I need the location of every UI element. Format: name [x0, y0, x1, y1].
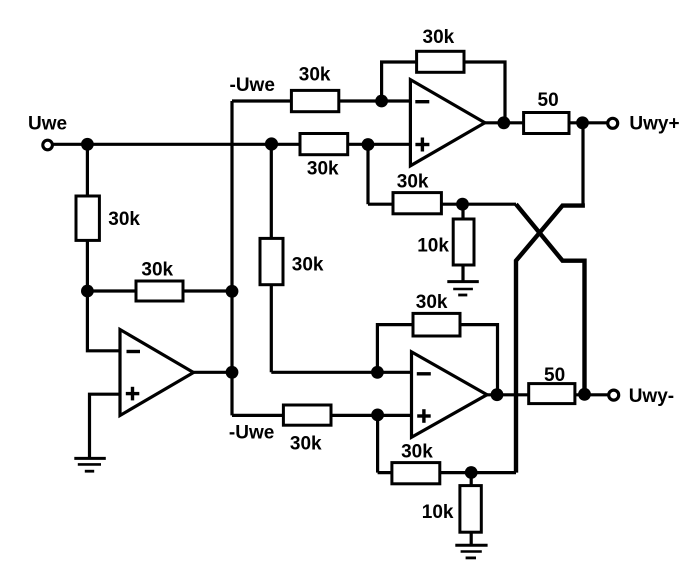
node input Uwe junction: [81, 138, 94, 151]
resistor 30k bottom op-amp feedback: [413, 313, 460, 336]
op-amp U2 plus sign: [415, 143, 429, 146]
wire top feedback right: [464, 62, 505, 123]
resistor 30k middle vertical: [260, 238, 283, 284]
resistor 30k bottom positive net: [392, 463, 440, 484]
svg-text:-Uwe: -Uwe: [230, 75, 275, 96]
terminal Uwy- output: [609, 390, 619, 400]
svg-text:50: 50: [538, 90, 559, 111]
wire bottom op-amp minus row: [271, 371, 411, 374]
node left feedback junction: [226, 285, 239, 298]
wire bottom output row: [487, 393, 610, 396]
node Uwy- output junction: [578, 388, 591, 401]
wire left attenuator vertical: [86, 144, 89, 291]
node bottom minus input junction: [371, 366, 384, 379]
wire crossover from Uwy+ to bottom plus-net: [516, 206, 585, 473]
svg-text:30k: 30k: [397, 172, 429, 193]
terminal Uwy+ output: [608, 118, 618, 128]
wire top plus-net vertical: [366, 144, 369, 204]
op-amp U3 minus sign: [417, 372, 431, 375]
node middle resistor junction: [265, 137, 278, 150]
wire Uwy+ node down feed: [581, 123, 584, 204]
ground top 10k: [447, 280, 479, 283]
svg-text:10k: 10k: [422, 502, 454, 523]
resistor 30k top positive net: [393, 193, 441, 214]
node top plus input junction: [362, 138, 375, 151]
node top 10k junction: [456, 198, 469, 211]
resistor 30k top -Uwe input: [291, 90, 338, 111]
svg-text:Uwe: Uwe: [28, 114, 67, 135]
wire left op-amp plus input to ground: [90, 394, 122, 459]
wire top plus-net row: [368, 203, 516, 206]
wire bottom 10k vertical: [470, 473, 473, 545]
node bottom plus input junction: [371, 409, 384, 422]
svg-text:Uwy-: Uwy-: [629, 386, 674, 407]
resistor 30k left op-amp feedback: [136, 281, 183, 301]
node left op-amp output junction: [226, 366, 239, 379]
wire bottom -Uwe row: [232, 414, 412, 417]
resistor 30k top plus input: [300, 134, 348, 155]
svg-text:30k: 30k: [108, 209, 140, 230]
wire top feedback left: [382, 62, 417, 101]
op-amp U2 top: [410, 80, 485, 166]
svg-text:30k: 30k: [292, 254, 324, 275]
resistor 50 bottom output: [529, 384, 575, 404]
terminal Uwe input: [43, 140, 53, 150]
resistor 50 top output: [524, 113, 569, 134]
resistor 10k top: [453, 219, 474, 265]
op-amp U1 minus sign: [127, 350, 141, 353]
wire bottom plus-net vertical: [376, 415, 379, 472]
wire input row Uwe: [48, 143, 409, 146]
svg-text:30k: 30k: [290, 434, 322, 455]
op-amp U2 minus sign: [415, 100, 429, 103]
ground left op-amp: [74, 457, 106, 460]
wire middle resistor vertical: [270, 144, 273, 372]
wire left feedback row: [87, 289, 232, 292]
wire bottom plus-net row: [378, 471, 516, 474]
resistor 30k bottom -Uwe input: [283, 405, 331, 425]
resistor 30k input attenuator top: [76, 196, 99, 240]
svg-text:10k: 10k: [417, 235, 449, 256]
node Uwy+ output junction: [576, 116, 589, 129]
op-amp U1 plus sign: [126, 392, 140, 395]
node left attenuator junction: [81, 285, 94, 298]
resistor 10k bottom: [460, 486, 481, 533]
node bottom 10k junction: [465, 466, 478, 479]
node bottom op-amp output junction: [491, 388, 504, 401]
svg-text:30k: 30k: [307, 159, 339, 180]
node top minus input junction: [375, 95, 388, 108]
svg-text:-Uwe: -Uwe: [229, 423, 274, 444]
wire crossover from top plus-net to Uwy-: [516, 204, 585, 395]
wire bottom feedback right: [460, 325, 498, 395]
wire left op-amp minus input: [87, 291, 121, 351]
svg-text:30k: 30k: [401, 441, 433, 462]
svg-text:Uwy+: Uwy+: [629, 114, 679, 135]
wire top output row: [484, 121, 609, 124]
op-amp U1 left: [120, 330, 194, 416]
svg-text:30k: 30k: [423, 27, 455, 48]
wire top 10k vertical: [461, 204, 464, 281]
op-amp U3 plus sign: [417, 414, 431, 417]
svg-text:30k: 30k: [416, 292, 448, 313]
ground bottom 10k: [455, 544, 487, 547]
wire -Uwe vertical bus: [230, 101, 233, 415]
resistor 30k top op-amp feedback: [417, 51, 464, 72]
svg-text:50: 50: [544, 365, 565, 386]
wire left op-amp output: [192, 371, 232, 374]
svg-text:30k: 30k: [299, 64, 331, 85]
node top op-amp output junction: [497, 116, 510, 129]
svg-text:30k: 30k: [141, 260, 173, 281]
wire top -Uwe row: [232, 99, 410, 102]
wire bottom feedback left: [377, 325, 413, 373]
op-amp U3 bottom: [412, 352, 488, 437]
